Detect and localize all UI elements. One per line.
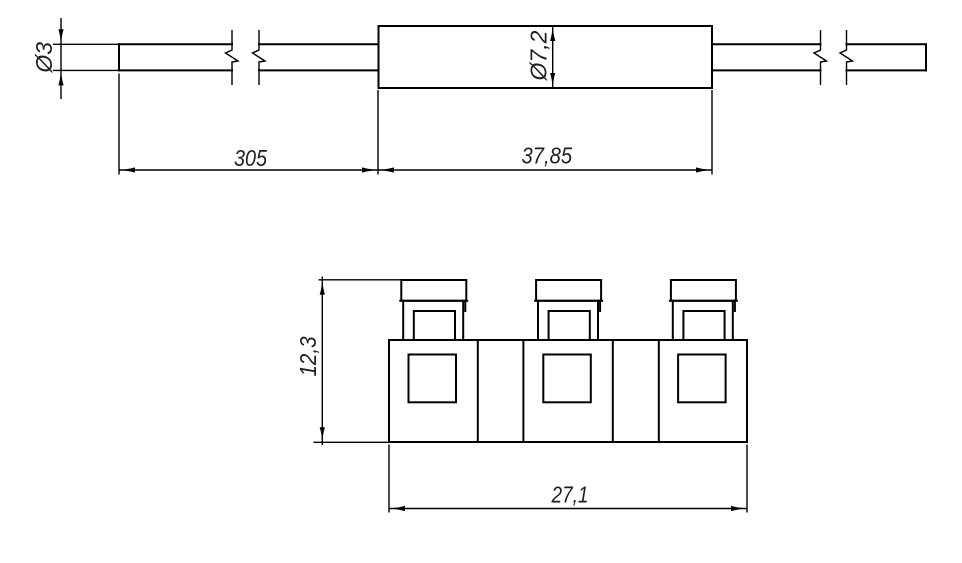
left lead end cap — [118, 44, 120, 70]
dimension Ø3 bottom arrow — [58, 70, 63, 85]
dimension 27,1 extension line right — [746, 445, 748, 513]
break symbol right wire, right zigzag — [840, 30, 853, 85]
terminal 3 cap lip — [734, 301, 736, 311]
dimension 27,1 label — [551, 482, 589, 508]
terminal block divider 4 — [658, 340, 660, 442]
dimension Ø7,2 line — [552, 26, 554, 88]
dimension Ø3 extension lines — [53, 44, 119, 70]
terminal 1 cap lip — [464, 301, 466, 311]
dimension 27,1 right arrow — [731, 506, 747, 511]
dimension 12,3 bottom extension line — [314, 441, 390, 443]
dimension 27,1 extension line left — [388, 445, 390, 513]
dimension 305 label — [234, 145, 267, 171]
component body — [379, 26, 713, 88]
dimension 305 line — [119, 169, 378, 171]
dimension 12,3 label — [295, 336, 321, 376]
dimension 12,3 top arrow — [320, 280, 325, 295]
dimension 37,85 left arrow — [378, 167, 394, 172]
terminal 1 tower sides — [403, 301, 463, 340]
dimension 27,1 left arrow — [389, 506, 405, 511]
terminal 3 wire window — [678, 355, 726, 403]
svg-text:305: 305 — [234, 145, 267, 171]
dimension 37,85 line — [378, 169, 712, 171]
right lead upper outline (wire) — [712, 43, 926, 45]
dimension 37,85 label — [522, 143, 573, 169]
dimension 305 left arrow — [119, 167, 135, 172]
right lead lower outline (wire) — [712, 69, 926, 71]
svg-text:Ø3: Ø3 — [31, 42, 57, 74]
left lead lower outline (wire) — [119, 69, 378, 71]
terminal block divider 1 — [477, 340, 479, 442]
dimension Ø3 label — [31, 42, 57, 74]
break symbol right wire, left zigzag — [814, 30, 827, 85]
dimension 27,1 line — [389, 508, 747, 510]
dimension Ø3 line — [60, 18, 62, 99]
svg-text:27,1: 27,1 — [551, 482, 589, 508]
terminal 1 wire window — [409, 355, 457, 403]
right lead end cap — [925, 44, 927, 70]
terminal 3 tower sides — [673, 301, 733, 340]
svg-text:Ø7,2: Ø7,2 — [526, 30, 552, 81]
svg-text:12,3: 12,3 — [295, 336, 321, 376]
terminal 1 screw cap — [400, 280, 467, 301]
terminal 2 wire window — [543, 355, 591, 403]
terminal block divider 3 — [612, 340, 614, 442]
dimension Ø7,2 label — [526, 30, 552, 81]
dimension 305 right arrow — [362, 167, 378, 172]
terminal 1 screw slot window — [414, 311, 455, 340]
left lead upper outline (wire) — [119, 43, 378, 45]
dimension 305 extension line left — [118, 74, 120, 175]
terminal block body — [389, 340, 747, 442]
terminal 2 screw cap — [535, 280, 602, 301]
dimension 37,85 extension line right (body right) — [711, 90, 713, 175]
terminal 3 screw cap — [670, 280, 737, 301]
terminal 2 cap lip — [599, 301, 601, 311]
dimension 12,3 line — [321, 277, 323, 446]
terminal 2 tower sides — [538, 301, 598, 340]
dimension Ø7,2 top arrow — [550, 26, 555, 41]
break symbol left wire, right zigzag — [253, 30, 266, 85]
dimension Ø3 top arrow — [58, 29, 63, 44]
terminal 3 screw slot window — [683, 311, 724, 340]
break symbol left wire, left zigzag — [226, 30, 239, 85]
dimension 37,85 right arrow — [696, 167, 712, 172]
dimension Ø7,2 bottom arrow — [550, 73, 555, 88]
svg-text:37,85: 37,85 — [522, 143, 573, 169]
terminal block divider 2 — [522, 340, 524, 442]
dimension 12,3 top extension line — [319, 279, 402, 281]
dimension 37,85 extension line left (shared, body left) — [377, 90, 379, 175]
dimension 12,3 bottom arrow — [320, 427, 325, 442]
terminal 2 screw slot window — [549, 311, 590, 340]
